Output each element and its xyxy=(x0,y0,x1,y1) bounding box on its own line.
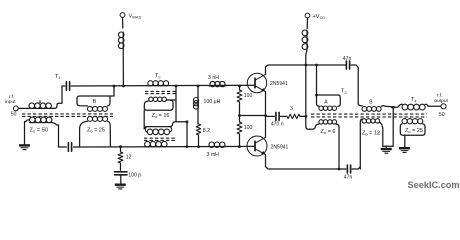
svg-text:input: input xyxy=(5,99,16,105)
svg-text:VBIAS: VBIAS xyxy=(129,13,142,19)
svg-text:output: output xyxy=(434,98,448,104)
svg-text:100: 100 xyxy=(244,93,253,99)
svg-text:T2: T2 xyxy=(155,73,161,79)
svg-text:3: 3 xyxy=(290,106,293,112)
svg-text:Zo = 6: Zo = 6 xyxy=(321,129,336,135)
svg-text:2N5941: 2N5941 xyxy=(271,145,289,151)
svg-text:r.f.: r.f. xyxy=(437,93,442,99)
svg-text:Zo = 50: Zo = 50 xyxy=(30,128,49,134)
svg-text:2N5941: 2N5941 xyxy=(270,81,288,87)
svg-text:47n: 47n xyxy=(343,56,352,62)
svg-text:B: B xyxy=(93,99,97,105)
svg-text:47n: 47n xyxy=(344,175,353,181)
svg-text:100: 100 xyxy=(244,125,253,131)
svg-text:3 nH: 3 nH xyxy=(208,75,219,81)
svg-text:3 mH: 3 mH xyxy=(207,152,220,158)
svg-text:CC: CC xyxy=(320,15,326,20)
svg-text:8.2: 8.2 xyxy=(203,128,210,134)
svg-text:Zo = 16: Zo = 16 xyxy=(152,113,170,119)
svg-text:T4: T4 xyxy=(411,97,417,103)
svg-text:T1: T1 xyxy=(55,74,61,80)
svg-text:50: 50 xyxy=(11,112,17,118)
svg-text:Zo = 25: Zo = 25 xyxy=(87,128,105,134)
svg-text:470 n: 470 n xyxy=(271,122,284,128)
svg-text:100 p: 100 p xyxy=(128,173,141,179)
svg-text:T3: T3 xyxy=(341,89,347,95)
svg-text:12: 12 xyxy=(126,155,132,161)
svg-text:Zo = 25: Zo = 25 xyxy=(405,128,423,134)
svg-text:SeekIC.com: SeekIC.com xyxy=(408,180,460,190)
svg-text:Zo = 12: Zo = 12 xyxy=(362,131,380,137)
svg-text:50: 50 xyxy=(439,112,445,118)
svg-text:100 μH: 100 μH xyxy=(204,99,221,105)
svg-text:A: A xyxy=(38,100,42,106)
